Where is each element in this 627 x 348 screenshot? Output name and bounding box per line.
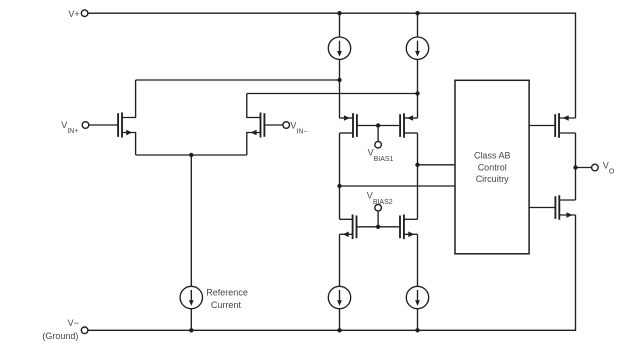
svg-text:VBIAS1: VBIAS1: [368, 148, 394, 164]
terminal VIN-: [283, 122, 290, 129]
wire rail2 from Q4 source leg down to Q6 drain leg: [417, 133, 419, 219]
current source I1: [328, 37, 350, 59]
junction rail2 tap to box: [415, 163, 419, 167]
wire rail1 tap to Class AB box: [340, 185, 456, 187]
svg-text:(Ground): (Ground): [42, 331, 78, 341]
transistor Q2 input right NMOS: [247, 94, 283, 156]
wire Q7 source down to Q8 drain (output node): [575, 133, 577, 200]
wire output node to VO terminal: [576, 167, 592, 169]
junction output node: [573, 165, 577, 169]
current source I3 reference current: [180, 286, 202, 308]
transistor Q7 output PMOS: [555, 113, 575, 138]
svg-text:Class AB: Class AB: [474, 151, 511, 161]
transistor Q6 cascode lower-right NMOS: [400, 215, 418, 240]
current source I2: [406, 37, 428, 59]
wire rail1 upper segment (top rail to current source I1): [339, 13, 341, 37]
wire rail1 from Q5 source leg down to current source I4: [339, 234, 341, 286]
wire Q3-Q4 common gate: [357, 125, 400, 127]
junction rail1 tap to box: [337, 184, 341, 188]
junction Q1 drain on rail1: [337, 78, 341, 82]
wire bottom V- rail across to right output branch: [88, 215, 576, 330]
Class AB control circuitry block U1: [455, 80, 529, 254]
junction reference source on bottom rail: [189, 328, 193, 332]
wire rail2 from Q6 source leg down to current source I5: [417, 234, 419, 286]
junction rail2 on bottom rail: [415, 328, 419, 332]
junction VBIAS1 on gate wire: [376, 123, 380, 127]
transistor Q3 cascode upper-left PMOS: [340, 113, 357, 138]
junction top rail / rail2: [415, 11, 419, 15]
svg-text:VIN+: VIN+: [61, 120, 78, 135]
junction Q2 drain on rail2: [415, 91, 419, 95]
wire Q1 drain to rail1: [136, 79, 340, 81]
svg-text:VBIAS2: VBIAS2: [367, 191, 393, 207]
current source I4: [328, 286, 350, 308]
svg-text:Current: Current: [211, 300, 242, 310]
svg-text:Reference: Reference: [206, 287, 248, 297]
wire Q2 drain to rail2: [247, 93, 418, 95]
wire rail2 tap to Class AB box: [418, 164, 456, 166]
svg-text:VIN−: VIN−: [290, 120, 307, 135]
svg-text:V−: V−: [68, 318, 79, 328]
VBIAS2 stub wire: [377, 211, 379, 227]
junction VBIAS2 on gate wire: [376, 225, 380, 229]
wire rail2 from I5 down to bottom rail: [417, 309, 419, 331]
wire tail node down to reference current source: [190, 155, 192, 286]
transistor Q1 input left NMOS: [89, 80, 136, 155]
wire rail1 from Q3 source leg down to Q5 drain leg: [339, 133, 341, 219]
wire rail2 from I2 down to Q4 drain leg: [417, 59, 419, 118]
wire input pair common tail: [136, 154, 247, 156]
junction rail1 on bottom rail: [337, 328, 341, 332]
terminal VO: [592, 164, 599, 171]
wire rail1 from I1 down to Q3 drain leg: [339, 59, 341, 118]
svg-text:V+: V+: [68, 9, 79, 19]
transistor Q4 cascode upper-right PMOS: [400, 113, 417, 138]
svg-text:Control: Control: [478, 162, 507, 172]
wire rail1 from I4 down to bottom rail: [339, 309, 341, 331]
terminal VIN+: [82, 122, 89, 129]
wire Class AB box to Q7 gate: [529, 125, 555, 127]
terminal V+: [81, 10, 88, 17]
svg-text:VO: VO: [603, 161, 615, 176]
junction top rail / rail1: [337, 11, 341, 15]
svg-text:Circuitry: Circuitry: [476, 174, 509, 184]
terminal VBIAS1: [375, 141, 382, 148]
wire reference current source to bottom rail: [190, 309, 192, 331]
wire Q5-Q6 common gate: [357, 226, 401, 228]
wire rail2 upper segment (top rail to current source I2): [417, 13, 419, 37]
wire Class AB box to Q8 gate: [529, 207, 555, 209]
terminal V- ground: [81, 327, 88, 334]
transistor Q8 output NMOS: [555, 195, 575, 220]
current source I5: [406, 286, 428, 308]
transistor Q5 cascode lower-left NMOS: [340, 215, 357, 240]
VBIAS1 stub wire: [377, 126, 379, 142]
wire top V+ rail across to right output branch: [88, 13, 576, 118]
terminal VBIAS2: [375, 204, 382, 211]
junction input tail node: [189, 153, 193, 157]
